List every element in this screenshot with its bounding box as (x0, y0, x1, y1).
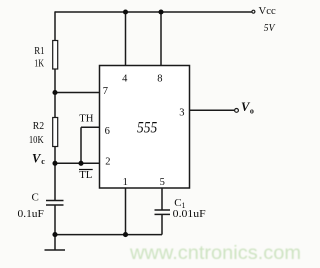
wire C to ground rail (54, 205, 56, 235)
pin 5 (160, 177, 165, 188)
wire pin 5 to C1 (161, 188, 163, 210)
label TH (79, 113, 93, 125)
svg-text:R1: R1 (34, 45, 44, 57)
svg-text:4: 4 (122, 73, 128, 84)
Vcc terminal circle (252, 10, 255, 13)
svg-text:TL: TL (79, 169, 92, 181)
junction node TH-TL (78, 161, 83, 166)
wire node A to pin 7 (55, 92, 100, 94)
label TL with overline (79, 169, 93, 181)
node Vcc label (259, 5, 276, 17)
label C (32, 192, 39, 204)
label C1 (174, 197, 185, 210)
svg-text:o: o (250, 107, 254, 116)
wire TH pin 6 stub (81, 127, 100, 163)
watermark www.cntronics.com (129, 242, 301, 264)
svg-text:1K: 1K (34, 58, 44, 70)
svg-text:C: C (32, 192, 39, 204)
label R1 (34, 45, 44, 57)
svg-text:3: 3 (179, 108, 184, 119)
svg-text:2: 2 (105, 157, 110, 168)
ground (45, 235, 66, 250)
wire left rail upper segment (54, 11, 56, 41)
pin 3 (179, 108, 184, 119)
svg-text:1: 1 (123, 177, 128, 188)
resistor R1 (53, 41, 58, 70)
junction node pin1 ground (123, 232, 128, 237)
junction node A R1-R2 (52, 90, 57, 95)
svg-text:5V: 5V (264, 23, 276, 34)
svg-text:0.01uF: 0.01uF (173, 208, 206, 220)
value 5V (264, 23, 276, 34)
svg-text:TH: TH (79, 113, 93, 125)
wire pin 3 output (190, 109, 235, 111)
junction node Vc (52, 161, 57, 166)
wire pin 4 riser (125, 12, 127, 66)
wire node Vc to pin 2 (55, 162, 100, 164)
value 0.1uF (18, 208, 44, 220)
resistor R2 (53, 118, 58, 147)
junction node pin4 rail (123, 9, 128, 14)
svg-text:555: 555 (137, 120, 157, 137)
svg-text:R2: R2 (33, 120, 44, 132)
value 0.01uF (173, 208, 206, 220)
svg-text:Vcc: Vcc (259, 5, 276, 17)
wire C1 to ground rail (161, 214, 163, 234)
pin 6 (105, 126, 110, 137)
svg-text:7: 7 (103, 86, 108, 97)
wire R2 to node Vc (54, 147, 56, 201)
capacitor C (46, 201, 64, 206)
wire pin 8 riser (160, 12, 162, 66)
pin 2 (105, 157, 110, 168)
node Vc label (32, 151, 45, 166)
svg-text:8: 8 (157, 74, 162, 85)
value 10K (29, 134, 44, 146)
IC name 555 (137, 120, 157, 137)
pin 7 (103, 86, 108, 97)
svg-text:0.1uF: 0.1uF (18, 208, 44, 220)
pin 1 (123, 177, 128, 188)
svg-text:6: 6 (105, 126, 110, 137)
svg-text:www.cntronics.com: www.cntronics.com (129, 242, 301, 264)
junction node pin8 rail (158, 9, 163, 14)
label R2 (33, 120, 44, 132)
value 1K (34, 58, 44, 70)
capacitor C1 (155, 210, 171, 214)
wire pin 1 to ground rail (125, 188, 127, 235)
wire bottom ground rail (55, 234, 162, 236)
svg-text:10K: 10K (29, 134, 44, 146)
op-amp U1 555 IC box (100, 66, 190, 189)
svg-text:c: c (41, 157, 45, 166)
pin 4 (122, 73, 128, 84)
junction node ground left (52, 232, 57, 237)
node Vo label (241, 100, 254, 116)
pin 8 (157, 74, 162, 85)
Vo terminal circle (235, 109, 239, 113)
svg-text:5: 5 (160, 177, 165, 188)
wire top power rail (55, 11, 252, 13)
wire R1 to node A (54, 69, 56, 118)
